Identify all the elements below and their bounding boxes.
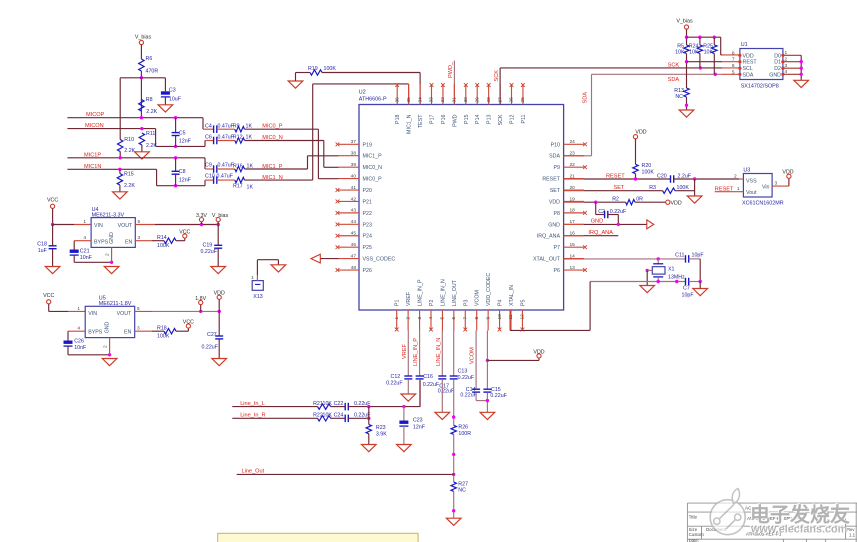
wire to TEST pin 34: [322, 73, 420, 105]
svg-text:10nF: 10nF: [80, 255, 93, 261]
svg-text:43: 43: [351, 208, 357, 214]
wire: [596, 202, 605, 214]
U2 pin 36 P18: [394, 83, 401, 124]
U1 pin 1 D0: [774, 50, 801, 59]
svg-text:44: 44: [351, 219, 357, 225]
wire to U1 VDD: [721, 37, 740, 55]
svg-text:P11: P11: [521, 114, 527, 123]
svg-text:1: 1: [785, 50, 788, 56]
svg-text:10: 10: [497, 314, 503, 320]
ground: [271, 265, 286, 272]
capacitor C8: [172, 158, 192, 186]
svg-text:VDD: VDD: [549, 199, 560, 205]
wire: [331, 417, 346, 419]
svg-text:1: 1: [394, 317, 400, 320]
wire: [368, 434, 370, 445]
svg-text:13MHz: 13MHz: [668, 274, 685, 280]
svg-text:P8: P8: [554, 211, 561, 217]
net VREF wire: [402, 331, 409, 377]
svg-text:VDD: VDD: [533, 349, 544, 355]
wire: [52, 249, 54, 267]
wire: [176, 328, 188, 331]
svg-text:U1: U1: [741, 42, 748, 48]
U2 pin 2 VREF: [405, 291, 412, 330]
svg-text:VCC: VCC: [43, 293, 54, 299]
wire: [119, 152, 121, 158]
svg-text:29: 29: [474, 97, 480, 103]
power port VCC: [43, 293, 54, 304]
svg-text:VREF: VREF: [402, 343, 408, 359]
svg-text:LINE_IN_N: LINE_IN_N: [440, 279, 446, 306]
wire: [452, 379, 455, 425]
svg-text:R26: R26: [458, 425, 468, 431]
svg-text:C16: C16: [423, 374, 433, 380]
svg-text:R20: R20: [642, 163, 652, 169]
capacitor C2: [598, 209, 627, 218]
svg-text:REST: REST: [743, 60, 758, 66]
svg-text:VCC: VCC: [183, 319, 194, 325]
resistor R17: [233, 177, 253, 190]
svg-text:MIC0_N: MIC0_N: [363, 165, 383, 171]
wire: [176, 238, 185, 241]
svg-text:3: 3: [137, 326, 140, 332]
svg-text:D0: D0: [774, 53, 781, 59]
wire: [324, 141, 339, 168]
capacitor C22: [334, 401, 372, 410]
svg-text:LINE_OUT: LINE_OUT: [452, 279, 458, 306]
U2 pin 24 P10: [551, 139, 587, 148]
net VDD_CODEC wire: [486, 331, 489, 390]
wire: [646, 269, 653, 286]
wire: [452, 434, 455, 482]
svg-text:25: 25: [520, 97, 526, 103]
wire U4 EN pin 3: [135, 235, 164, 241]
title block text: [689, 506, 856, 542]
svg-text:6: 6: [732, 63, 735, 69]
note box: [218, 533, 418, 542]
svg-text:100R: 100R: [458, 431, 471, 437]
svg-text:Title: Title: [689, 515, 698, 520]
wire: [800, 55, 803, 80]
U2 pin 22 P9: [554, 162, 587, 171]
svg-text:XTAL_IN: XTAL_IN: [509, 285, 515, 306]
svg-text:SET: SET: [550, 188, 561, 194]
net SDA wire vertical: [564, 74, 592, 156]
port GND arrow: [647, 220, 654, 229]
wire: [296, 72, 311, 74]
svg-text:10pF: 10pF: [682, 292, 695, 298]
svg-text:12nF: 12nF: [179, 139, 192, 145]
svg-text:10nF: 10nF: [74, 345, 87, 351]
svg-text:C23: C23: [413, 418, 423, 424]
resistor R10: [118, 137, 136, 154]
svg-text:18: 18: [570, 208, 576, 214]
power port VDD: [633, 130, 646, 139]
wire: [120, 77, 165, 79]
svg-text:C3: C3: [169, 88, 176, 94]
svg-text:7: 7: [732, 57, 735, 63]
capacitor C12: [386, 374, 412, 387]
svg-text:SDA: SDA: [743, 72, 754, 78]
capacitor C17: [438, 376, 455, 395]
svg-text:R11: R11: [146, 131, 155, 137]
power port VDD: [782, 170, 793, 187]
power port VDD: [666, 200, 682, 206]
svg-text:C10: C10: [205, 174, 215, 180]
capacitor C23: [399, 418, 425, 431]
svg-text:2: 2: [734, 174, 737, 180]
svg-text:EN: EN: [125, 239, 133, 245]
svg-text:C26: C26: [74, 338, 84, 344]
ground: [397, 445, 412, 452]
U1 pin 8 VDD: [732, 50, 754, 59]
resistor R5: [675, 44, 689, 56]
svg-text:33: 33: [429, 97, 435, 103]
resistor R26: [451, 425, 471, 438]
wire U4 VOUT pin 5: [135, 219, 220, 226]
U2 pin 8 VCOM: [474, 290, 481, 330]
wire U4 VIN pin 1: [53, 219, 92, 225]
svg-text:P2: P2: [429, 299, 435, 306]
svg-text:1K: 1K: [246, 135, 253, 141]
svg-text:R17: R17: [233, 183, 243, 189]
power port VCC: [183, 319, 194, 328]
svg-text:GND: GND: [105, 321, 111, 333]
svg-text:3.3V: 3.3V: [196, 213, 207, 219]
svg-text:TEST: TEST: [418, 114, 424, 128]
svg-text:C7: C7: [683, 285, 690, 291]
svg-text:C4: C4: [205, 123, 212, 129]
svg-text:SET: SET: [614, 185, 625, 191]
ground: [113, 185, 128, 199]
ground: [401, 394, 416, 401]
svg-text:R21: R21: [313, 401, 323, 407]
svg-text:9: 9: [485, 317, 491, 320]
svg-text:VDD: VDD: [671, 201, 682, 207]
power port VCC: [47, 198, 58, 209]
power port V_bias: [676, 19, 693, 30]
U1 pin 7 REST: [732, 57, 758, 66]
wire: [486, 392, 489, 412]
svg-text:0.22uF: 0.22uF: [438, 389, 455, 395]
U2 pin 47 VSS_CODEC: [339, 253, 396, 262]
wire: [164, 78, 166, 92]
U2 pin 11 XTAL_IN: [508, 285, 515, 331]
net Line_In_R wire: [232, 412, 317, 418]
net PWD_ wire: [448, 61, 454, 105]
wire U5 GND pin 2: [103, 338, 110, 355]
ground: [212, 359, 227, 366]
U2 pin 19 VDD: [549, 196, 584, 205]
svg-text:MIC1_P: MIC1_P: [363, 154, 383, 160]
net MIC1N wire: [67, 164, 156, 171]
svg-text:P21: P21: [363, 199, 372, 205]
svg-text:RESET: RESET: [542, 177, 560, 183]
svg-text:0.22uF: 0.22uF: [423, 382, 440, 388]
svg-text:42: 42: [351, 196, 357, 202]
regulator U4 ME6211-3.3V body: [91, 207, 135, 247]
capacitor C6: [205, 135, 235, 145]
svg-text:P16: P16: [441, 114, 447, 123]
svg-text:P1: P1: [395, 299, 401, 306]
svg-text:C15: C15: [491, 387, 501, 393]
U2 pin 25 P11: [520, 83, 527, 123]
svg-text:1: 1: [251, 275, 254, 281]
wire: [686, 179, 695, 196]
svg-text:MIC1_N: MIC1_N: [407, 114, 413, 134]
wire: [689, 280, 702, 289]
ground: [211, 267, 226, 274]
U2 pin 23 SDA: [549, 151, 584, 160]
svg-text:P14: P14: [475, 114, 481, 123]
watermark text: [750, 503, 850, 536]
svg-text:P23: P23: [363, 222, 372, 228]
svg-text:P12: P12: [510, 114, 516, 123]
svg-text:100K: 100K: [157, 333, 170, 339]
net SCK wire vertical: [494, 68, 500, 105]
svg-text:VOUT: VOUT: [117, 311, 132, 317]
ground: [794, 80, 809, 87]
svg-text:8: 8: [732, 50, 735, 56]
ground: [158, 97, 173, 112]
svg-text:VDD: VDD: [743, 53, 754, 59]
U2 pin 27 SCK: [497, 84, 504, 125]
wire: [202, 118, 204, 130]
svg-text:470R: 470R: [146, 69, 159, 75]
svg-text:C11: C11: [675, 253, 684, 259]
U2 pin 32 P16: [440, 83, 447, 124]
net LINE_IN_N wire: [436, 331, 442, 377]
wire: [699, 54, 701, 68]
svg-text:D1: D1: [774, 60, 781, 66]
svg-text:R9: R9: [233, 123, 240, 129]
svg-text:IRQ_ANA: IRQ_ANA: [588, 230, 613, 236]
capacitor C15: [483, 387, 507, 399]
capacitor C4: [203, 123, 235, 133]
wire: [635, 174, 637, 179]
ground: [693, 289, 708, 296]
svg-text:R12: R12: [233, 135, 243, 141]
wire: [407, 379, 409, 394]
svg-text:SCK: SCK: [668, 62, 680, 68]
svg-text:BYPS: BYPS: [88, 330, 103, 336]
wire: [689, 259, 701, 282]
svg-text:10pF: 10pF: [692, 253, 705, 259]
svg-text:32: 32: [440, 97, 446, 103]
svg-text:C9: C9: [205, 163, 212, 169]
resistor R27: [451, 482, 468, 494]
svg-text:19: 19: [570, 196, 576, 202]
U2 pin 12 P5: [520, 299, 527, 331]
svg-text:P7: P7: [554, 245, 561, 251]
capacitor C24: [334, 412, 372, 422]
svg-text:X13: X13: [253, 294, 262, 300]
wire: [441, 379, 443, 412]
svg-text:R19: R19: [308, 66, 318, 72]
U2 pin 41 P20: [336, 185, 372, 194]
svg-text:R22: R22: [313, 412, 323, 418]
svg-text:4: 4: [428, 317, 434, 320]
svg-text:P18: P18: [395, 114, 401, 123]
svg-text:GND: GND: [769, 72, 781, 78]
svg-text:36: 36: [394, 97, 400, 103]
svg-text:NC: NC: [458, 488, 466, 494]
svg-text:40: 40: [351, 173, 357, 179]
wire U5 VOUT pin 5: [135, 306, 221, 313]
svg-text:ME6211-1.8V: ME6211-1.8V: [99, 301, 132, 307]
svg-text:4: 4: [785, 69, 788, 75]
svg-text:R14: R14: [157, 235, 167, 241]
svg-text:D2: D2: [774, 66, 781, 72]
svg-text:P15: P15: [464, 114, 470, 123]
net MICON wire: [67, 123, 155, 130]
svg-text:3: 3: [785, 63, 788, 69]
svg-text:C6: C6: [205, 135, 212, 141]
U2 pin 26 P12: [509, 83, 516, 124]
svg-text:C2: C2: [598, 209, 605, 215]
svg-text:100K: 100K: [677, 185, 690, 191]
svg-text:100K: 100K: [324, 66, 337, 72]
wire: [52, 225, 54, 246]
svg-text:R10: R10: [124, 137, 134, 143]
svg-text:12: 12: [520, 314, 526, 320]
capacitor C7: [682, 278, 695, 299]
net MIC1P wire: [67, 152, 205, 159]
svg-text:ME6211-3.3V: ME6211-3.3V: [92, 212, 125, 218]
svg-text:Custom: Custom: [689, 532, 704, 537]
U2 pin 10 P4: [497, 299, 504, 331]
resistor R19: [308, 66, 336, 75]
U2 pin 5 LINE_IN_N: [440, 279, 447, 330]
svg-text:C20: C20: [657, 173, 667, 179]
svg-text:5: 5: [138, 219, 141, 225]
wire U5 EN pin 3: [135, 326, 164, 332]
U2 pin 18 P8: [554, 208, 587, 217]
power port VDD: [214, 291, 225, 312]
svg-text:EN: EN: [124, 330, 132, 336]
svg-text:26: 26: [509, 97, 515, 103]
svg-text:Rev: Rev: [847, 527, 855, 532]
svg-text:V_bias: V_bias: [135, 35, 152, 41]
U2 pin 16 IRQ_ANA: [537, 231, 584, 240]
capacitor C18: [37, 242, 56, 255]
wire XTAL_IN to pin 11: [510, 282, 590, 331]
svg-text:R6: R6: [146, 56, 153, 62]
svg-text:IRQ_ANA: IRQ_ANA: [537, 234, 561, 240]
svg-text:100K: 100K: [157, 243, 170, 249]
svg-text:35: 35: [406, 97, 412, 103]
svg-text:VIN: VIN: [88, 311, 97, 317]
resistor R2: [612, 197, 643, 205]
capacitor C19: [201, 242, 223, 255]
net Line_Out wire: [237, 469, 454, 475]
svg-text:P19: P19: [363, 142, 372, 148]
regulator U5 ME6211-1.8V body: [85, 296, 135, 338]
wire U4 BYPS pin 4: [74, 235, 91, 249]
resistor R22: [313, 412, 332, 421]
U2 pin 38 MIC1_P: [339, 151, 383, 160]
svg-text:C21: C21: [80, 248, 90, 254]
svg-text:6: 6: [451, 317, 457, 320]
svg-text:ATH6606-P: ATH6606-P: [359, 97, 387, 103]
svg-text:P6: P6: [554, 268, 561, 274]
U2 pin 13 P6: [554, 265, 587, 274]
svg-text:R15: R15: [124, 172, 134, 178]
ground: [288, 73, 303, 89]
svg-text:C12: C12: [391, 374, 401, 380]
capacitor C13: [450, 369, 475, 381]
svg-text:1uF: 1uF: [38, 248, 48, 254]
svg-text:GND: GND: [548, 222, 560, 228]
capacitor C20: [657, 173, 692, 182]
svg-text:39: 39: [351, 162, 357, 168]
svg-text:2.2K: 2.2K: [146, 143, 157, 149]
svg-text:1K: 1K: [246, 123, 253, 129]
svg-text:V_bias: V_bias: [212, 213, 229, 219]
svg-text:13: 13: [570, 265, 576, 271]
svg-text:2: 2: [103, 345, 109, 348]
wire: [51, 208, 54, 226]
U2 pin 37 P19: [336, 139, 372, 148]
ground: [480, 412, 495, 419]
ground: [435, 412, 450, 419]
power port V_bias: [212, 213, 229, 225]
capacitor C5: [172, 118, 192, 147]
svg-text:45: 45: [351, 231, 357, 237]
svg-text:3.9K: 3.9K: [376, 432, 387, 438]
wire U5 VIN pin 1: [49, 304, 85, 312]
capacitor C3: [161, 88, 182, 103]
svg-text:10K: 10K: [689, 50, 699, 56]
svg-text:1: 1: [77, 306, 80, 312]
svg-text:P13: P13: [487, 114, 493, 123]
svg-text:P24: P24: [363, 234, 372, 240]
svg-text:0.22uF: 0.22uF: [458, 375, 475, 381]
U3 pin 3 Vin: [762, 181, 789, 191]
test point X13: [251, 275, 263, 300]
net XTAL_OUT wire: [564, 257, 686, 260]
net VCOM wire: [470, 331, 476, 390]
svg-text:5: 5: [732, 69, 735, 75]
svg-text:XTAL_OUT: XTAL_OUT: [533, 257, 561, 263]
net MIC0_N wire: [245, 135, 324, 141]
wire: [368, 407, 370, 425]
capacitor C26: [64, 338, 88, 351]
svg-text:Vin: Vin: [762, 185, 770, 191]
svg-text:37: 37: [351, 139, 357, 145]
U2 pin 43 P22: [336, 208, 372, 217]
wire: [674, 177, 740, 180]
svg-text:P9: P9: [554, 165, 561, 171]
U2 pin 14 XTAL_OUT: [533, 253, 584, 262]
svg-text:NC: NC: [675, 94, 683, 100]
net MIC1_N wire: [245, 175, 313, 181]
svg-text:VOUT: VOUT: [118, 223, 133, 229]
svg-text:5: 5: [440, 317, 446, 320]
ground: [45, 267, 60, 274]
net Line_In_L wire: [232, 401, 317, 407]
capacitor C27: [202, 332, 224, 350]
svg-text:P17: P17: [429, 114, 435, 123]
U1 pin 5 SDA: [732, 69, 754, 78]
wire: [318, 129, 338, 179]
net RESET wire: [564, 173, 671, 180]
svg-text:22: 22: [570, 162, 576, 168]
svg-text:38: 38: [351, 151, 357, 157]
U2 pin 17 GND: [548, 219, 584, 228]
svg-text:3: 3: [417, 317, 423, 320]
capacitor C10: [205, 174, 235, 184]
